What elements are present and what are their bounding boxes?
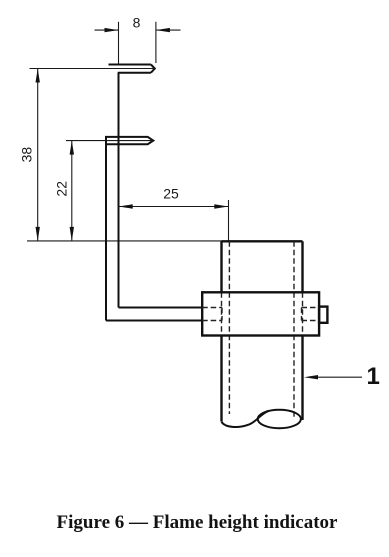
tube break ellipse bbox=[258, 410, 301, 428]
burner tube right edge upper bbox=[301, 241, 303, 292]
dimension 8 arrow left (points right) bbox=[105, 28, 119, 32]
screw hole hidden outline inside clamp bbox=[302, 308, 320, 321]
burner tube left edge upper bbox=[220, 241, 222, 292]
svg-text:1: 1 bbox=[367, 363, 380, 390]
dimension 8 extension line left bbox=[118, 22, 120, 64]
dimension 22 value label (rotated) bbox=[54, 181, 70, 197]
svg-text:Figure 6 — Flame height indica: Figure 6 — Flame height indicator bbox=[57, 512, 338, 533]
horizontal arm bottom edge bbox=[106, 320, 202, 322]
dimension 8 line right tail bbox=[156, 29, 180, 31]
dimension 8 arrow right (points left) bbox=[156, 28, 170, 32]
dimension 25 extension line bbox=[228, 200, 230, 241]
dimension 22 line bbox=[71, 141, 73, 241]
upper pointer blade tip bbox=[151, 65, 155, 73]
tube break S-curve bbox=[222, 411, 269, 427]
callout 1 leader line bbox=[309, 376, 362, 378]
burner tube top edge bbox=[222, 240, 303, 242]
tube outer wall hidden in clamp left bbox=[221, 292, 223, 335]
svg-text:22: 22 bbox=[54, 181, 70, 197]
burner tube left edge lower bbox=[220, 336, 222, 422]
callout 1 label bbox=[367, 363, 380, 390]
dimension 25 line bbox=[119, 206, 228, 208]
dimension 25 arrow right (points right) bbox=[214, 204, 228, 208]
tube bore hidden line right bbox=[293, 241, 295, 417]
dimension 8 value label bbox=[133, 15, 141, 31]
clamp screw boss bbox=[319, 307, 327, 323]
svg-text:8: 8 bbox=[133, 15, 141, 31]
support bar left edge bbox=[105, 137, 107, 321]
dimension 38 arrow bottom (points down) bbox=[36, 227, 40, 241]
horizontal arm top edge bbox=[119, 307, 203, 309]
dimension 25 arrow left (points left) bbox=[119, 204, 133, 208]
dimension 22 extension line bbox=[66, 140, 106, 142]
arm hidden outline inside clamp bbox=[202, 308, 222, 321]
clamp block bbox=[202, 292, 319, 335]
lower pointer blade centre line bbox=[106, 140, 153, 142]
svg-text:38: 38 bbox=[19, 147, 35, 163]
lower pointer blade outline bbox=[106, 137, 153, 144]
support bar right edge bbox=[118, 73, 120, 308]
svg-text:25: 25 bbox=[163, 186, 179, 202]
upper pointer blade centre line / 38 extension bbox=[30, 68, 155, 70]
upper pointer blade bottom edge bbox=[118, 72, 151, 74]
dimension 25 value label bbox=[163, 186, 179, 202]
baseline reference line (burner top datum) bbox=[27, 240, 222, 242]
tube bore hidden line left bbox=[228, 241, 230, 414]
dimension 38 value label (rotated) bbox=[19, 147, 35, 163]
dimension 8 extension line right bbox=[155, 22, 157, 63]
dimension 38 arrow top (points up) bbox=[36, 69, 40, 83]
dimension 38 line bbox=[37, 69, 39, 241]
callout 1 arrowhead (points left) bbox=[304, 375, 318, 379]
dimension 22 arrow top (points up) bbox=[70, 141, 74, 155]
dimension 22 arrow bottom (points down) bbox=[70, 227, 74, 241]
burner tube right edge lower bbox=[301, 336, 303, 421]
tube outer wall hidden in clamp right bbox=[302, 292, 304, 335]
upper pointer blade top edge bbox=[109, 64, 151, 66]
dimension 8 line left tail bbox=[95, 29, 119, 31]
figure caption bbox=[57, 512, 338, 533]
